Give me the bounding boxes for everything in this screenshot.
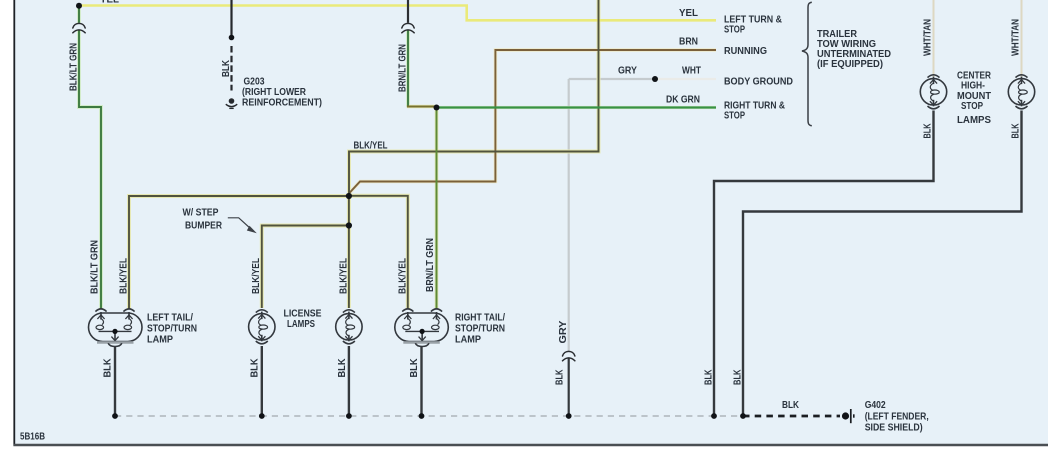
svg-text:BLK/YEL: BLK/YEL xyxy=(119,258,130,294)
svg-text:STOP/TURN: STOP/TURN xyxy=(147,324,197,335)
svg-text:BLK/YEL: BLK/YEL xyxy=(338,258,349,294)
svg-text:HIGH-: HIGH- xyxy=(961,81,985,92)
svg-text:LEFT TAIL/: LEFT TAIL/ xyxy=(147,313,193,324)
svg-text:BLK: BLK xyxy=(221,59,232,77)
svg-text:LAMPS: LAMPS xyxy=(957,115,991,126)
svg-text:BLK: BLK xyxy=(409,358,420,378)
svg-text:BLK: BLK xyxy=(704,369,715,385)
svg-text:DK GRN: DK GRN xyxy=(666,95,700,106)
svg-text:STOP/TURN: STOP/TURN xyxy=(455,324,505,335)
svg-text:LICENSE: LICENSE xyxy=(284,309,322,320)
svg-text:STOP: STOP xyxy=(724,25,745,36)
svg-text:W/ STEP: W/ STEP xyxy=(183,208,219,219)
svg-text:BRN/LT GRN: BRN/LT GRN xyxy=(425,238,436,292)
svg-text:BLK/YEL: BLK/YEL xyxy=(354,141,388,152)
svg-text:BLK/LT GRN: BLK/LT GRN xyxy=(90,240,101,294)
svg-text:LAMPS: LAMPS xyxy=(287,319,315,330)
svg-text:SIDE SHIELD): SIDE SHIELD) xyxy=(865,423,923,434)
svg-text:BLK: BLK xyxy=(555,369,566,385)
svg-text:GRY: GRY xyxy=(618,66,637,77)
svg-text:LAMP: LAMP xyxy=(147,335,173,346)
svg-text:BODY GROUND: BODY GROUND xyxy=(724,77,793,88)
svg-text:WHT: WHT xyxy=(682,66,701,77)
svg-text:BUMPER: BUMPER xyxy=(185,221,223,232)
svg-text:GRY: GRY xyxy=(558,320,569,343)
svg-text:BLK/LT GRN: BLK/LT GRN xyxy=(69,43,80,91)
svg-text:STOP: STOP xyxy=(961,101,983,112)
svg-text:RIGHT TAIL/: RIGHT TAIL/ xyxy=(455,313,505,324)
svg-text:BLK: BLK xyxy=(250,358,261,378)
svg-text:LAMP: LAMP xyxy=(455,335,481,346)
svg-text:(RIGHT LOWER: (RIGHT LOWER xyxy=(242,87,307,98)
svg-text:BLK: BLK xyxy=(923,123,934,139)
svg-text:RUNNING: RUNNING xyxy=(724,46,767,57)
svg-text:YEL: YEL xyxy=(679,8,698,19)
svg-text:G203: G203 xyxy=(244,77,265,88)
svg-text:WHT/TAN: WHT/TAN xyxy=(923,19,934,56)
svg-text:(IF EQUIPPED): (IF EQUIPPED) xyxy=(817,59,883,70)
svg-text:BRN/LT GRN: BRN/LT GRN xyxy=(398,44,409,92)
svg-text:BLK: BLK xyxy=(733,369,744,385)
svg-text:WHT/TAN: WHT/TAN xyxy=(1011,19,1022,56)
svg-text:5B16B: 5B16B xyxy=(20,432,45,443)
svg-text:BLK/YEL: BLK/YEL xyxy=(398,258,409,294)
svg-text:BRN: BRN xyxy=(679,37,698,48)
svg-text:BLK: BLK xyxy=(337,358,348,378)
svg-text:BLK: BLK xyxy=(103,358,114,378)
svg-text:BLK: BLK xyxy=(1011,123,1022,139)
svg-text:BLK: BLK xyxy=(782,400,800,411)
svg-text:G402: G402 xyxy=(865,400,886,411)
svg-text:BLK/YEL: BLK/YEL xyxy=(251,258,262,294)
svg-text:(LEFT FENDER,: (LEFT FENDER, xyxy=(865,412,929,423)
svg-text:REINFORCEMENT): REINFORCEMENT) xyxy=(242,98,322,109)
svg-text:STOP: STOP xyxy=(724,111,745,122)
svg-text:YEL: YEL xyxy=(100,0,119,6)
